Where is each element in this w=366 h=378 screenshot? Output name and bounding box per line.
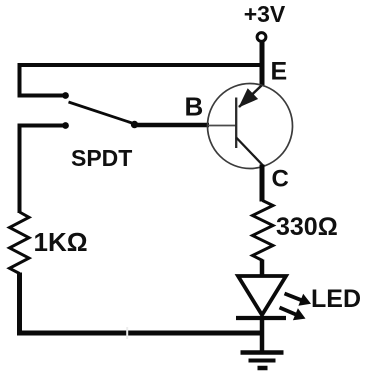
LED D1 emission arrow upper: [285, 294, 312, 306]
LED D1 emission arrow lower: [280, 308, 306, 321]
transistor Q1 emitter diagonal: [239, 86, 262, 108]
wire resistor to LED anode: [260, 260, 265, 278]
wire top rail emitter node to switch: [20, 65, 263, 96]
svg-text:E: E: [271, 58, 288, 86]
wire +3V to emitter: [260, 42, 265, 87]
transistor Q1 emitter arrowhead (PNP): [239, 88, 259, 107]
wire lower throw to left rail: [20, 126, 64, 214]
switch S1 SPDT lower throw contact: [62, 122, 69, 129]
svg-text:B: B: [185, 92, 204, 122]
svg-text:C: C: [272, 166, 289, 193]
switch S1 SPDT lever: [69, 102, 134, 124]
wire left rail bottom: [20, 273, 263, 334]
LED D1 cathode bar: [236, 316, 286, 320]
ground symbol: [241, 353, 284, 369]
svg-text:1KΩ: 1KΩ: [34, 227, 88, 257]
switch S1 SPDT upper throw contact: [62, 92, 69, 99]
transistor Q1 base bar: [235, 98, 237, 149]
terminal +3V: [257, 33, 266, 42]
resistor 330Ω zigzag: [253, 201, 274, 261]
wire switch pole to base: [135, 123, 210, 128]
transistor Q1 body circle: [208, 84, 293, 169]
switch S1 SPDT pole contact: [131, 121, 138, 128]
wire collector to resistor: [260, 165, 265, 202]
wire cathode to ground: [260, 318, 265, 353]
svg-text:SPDT: SPDT: [71, 145, 132, 171]
junction artifact tick on bottom wire: [126, 327, 128, 339]
svg-text:330Ω: 330Ω: [276, 213, 338, 241]
resistor R1 1KΩ zigzag: [10, 212, 30, 274]
svg-text:+3V: +3V: [244, 1, 286, 27]
transistor Q1 base lead inside: [208, 125, 236, 127]
transistor Q1 collector diagonal: [236, 138, 263, 167]
LED D1 triangle: [238, 276, 286, 315]
svg-text:LED: LED: [311, 285, 361, 313]
